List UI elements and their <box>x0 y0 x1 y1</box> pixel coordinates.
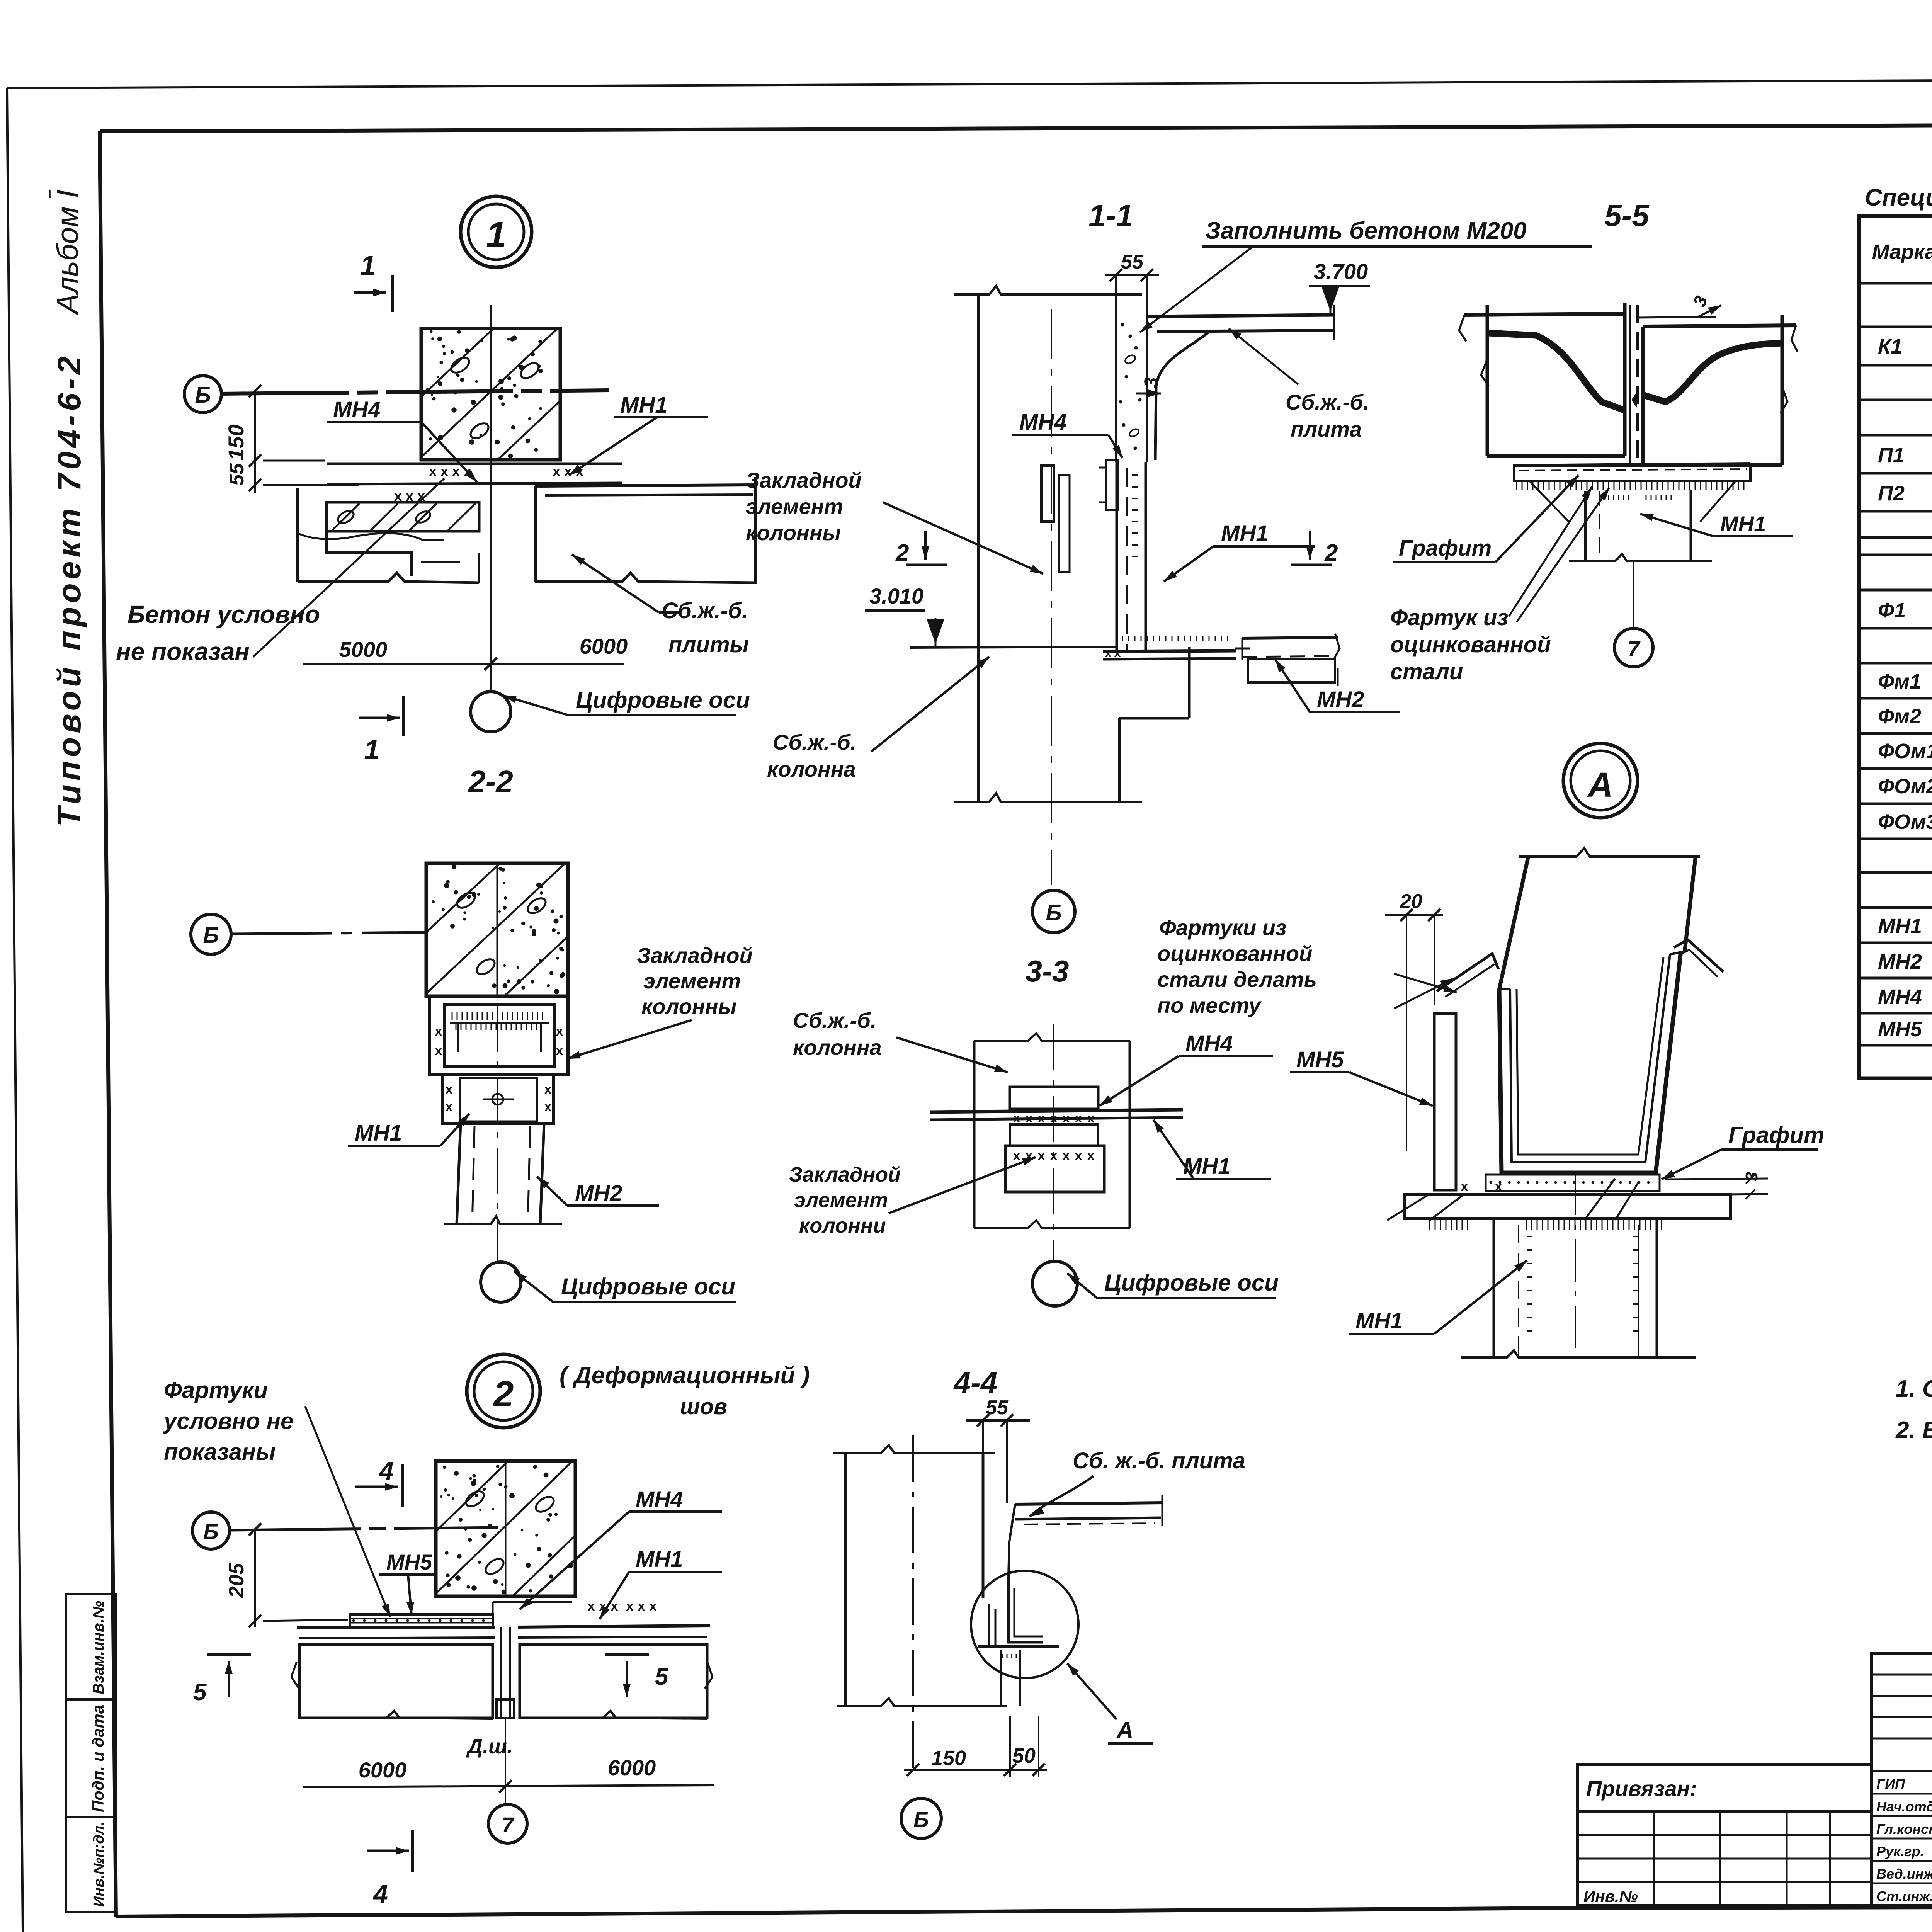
svg-text:стали делать: стали делать <box>1157 967 1317 992</box>
left slab outline node 1 <box>298 488 479 583</box>
leader заполнить бетоном <box>1140 247 1252 332</box>
label МН1 5-5 <box>1640 512 1793 536</box>
label МН1 2-2 <box>348 1114 469 1146</box>
svg-text:x: x <box>599 1599 607 1614</box>
svg-text:1-1: 1-1 <box>1088 198 1133 233</box>
steel plates МН joint node 1 <box>327 463 622 504</box>
axis circle Б 4-4 <box>901 1798 941 1838</box>
label Сб.ж.-б. плита 1-1 <box>1286 390 1369 441</box>
axis drop line node 1 <box>490 460 492 691</box>
section mark 5 (left) <box>193 1655 251 1706</box>
svg-text:5000: 5000 <box>339 637 388 662</box>
svg-text:Типовой проект 704-6-2: Типовой проект 704-6-2 <box>51 353 87 827</box>
МН4 angle piece 1-1 <box>1099 460 1117 510</box>
svg-text:x: x <box>446 1100 452 1114</box>
label Цифровые оси node 1 <box>503 687 750 715</box>
label МН4 section 1-1 <box>1012 410 1122 458</box>
cross leader marks node А <box>1394 974 1457 1009</box>
elevation 3.010 <box>865 584 944 646</box>
label Сб.ж.-б. плиты <box>662 598 749 657</box>
bracket МН1 2-2 <box>443 1075 553 1123</box>
МН1 channel stem 1-1 <box>1117 462 1146 651</box>
svg-text:55: 55 <box>1121 251 1144 273</box>
svg-text:Фартуки: Фартуки <box>164 1377 268 1403</box>
svg-text:x: x <box>1105 647 1112 660</box>
svg-text:x: x <box>564 463 572 479</box>
table header texts <box>1872 232 1932 274</box>
svg-text:МН1: МН1 <box>355 1121 402 1146</box>
svg-text:МН1: МН1 <box>1221 521 1268 546</box>
svg-text:Сб.ж.-б.: Сб.ж.-б. <box>662 598 748 623</box>
elevation 3.700 <box>1309 259 1370 315</box>
axis drop line 2-2 <box>497 863 498 1262</box>
detail circle А 4-4 <box>971 1571 1078 1678</box>
table row П2 <box>1878 478 1932 514</box>
svg-text:Привязан:: Привязан: <box>1586 1776 1697 1801</box>
svg-text:x: x <box>638 1599 645 1614</box>
svg-text:x: x <box>588 1599 595 1614</box>
embedded element 2-2 <box>430 996 568 1075</box>
section mark 4 (top) <box>355 1456 403 1507</box>
svg-text:55: 55 <box>226 463 248 486</box>
label МН1 node 1 <box>569 393 708 475</box>
label А 4-4 <box>1067 1663 1153 1743</box>
svg-text:5: 5 <box>655 1663 669 1690</box>
plate section 4-4 <box>1009 1495 1163 1577</box>
svg-text:x: x <box>1050 1148 1058 1163</box>
section mark 2 (left) <box>895 531 947 566</box>
svg-text:2: 2 <box>493 1374 514 1415</box>
label Закладной элемент колонны 2-2 <box>637 943 753 1019</box>
svg-text:Гл.констр.: Гл.констр. <box>1876 1821 1932 1837</box>
lower embedded element 3-3 <box>1005 1124 1104 1192</box>
label МН4 3-3 <box>1099 1031 1273 1106</box>
label Цифровые оси 3-3 <box>1067 1270 1279 1298</box>
table row ФОм3 <box>1878 810 1932 833</box>
svg-text:( Деформационный ): ( Деформационный ) <box>560 1362 810 1389</box>
svg-text:x: x <box>1114 647 1121 660</box>
axis circle Б 1-1 <box>1032 890 1075 933</box>
dimension 20 node А <box>1385 890 1443 1151</box>
Привязан block <box>1577 1764 1872 1906</box>
deformation gap node 2 <box>497 1627 514 1718</box>
leaders фартук 5-5 <box>1509 487 1609 622</box>
svg-text:МН5: МН5 <box>1878 1018 1922 1041</box>
upper embedded plate МН4 3-3 <box>1010 1087 1098 1126</box>
concrete fill speckles 1-1 <box>1119 323 1142 450</box>
svg-text:6000: 6000 <box>608 1755 656 1780</box>
svg-text:колонны: колонны <box>641 994 736 1019</box>
column body 4-4 <box>833 1445 1007 1706</box>
label Бетон условно не показан <box>116 600 320 665</box>
svg-text:x: x <box>611 1599 618 1614</box>
svg-text:плита: плита <box>1291 417 1362 441</box>
label (Деформационный шов) <box>560 1362 810 1419</box>
apron layered joint node 2 <box>350 1599 657 1627</box>
svg-text:Б: Б <box>203 1519 219 1544</box>
left margin box Подп. и дата <box>66 1699 116 1817</box>
svg-text:x: x <box>626 1599 634 1614</box>
right apron hook node А <box>1674 940 1723 977</box>
svg-text:3: 3 <box>1141 377 1162 388</box>
leader from бетон label to plate <box>253 478 444 657</box>
leader сб.ж.-б. плита 1-1 <box>1229 328 1298 384</box>
dimension 205 node 2 <box>225 1523 348 1627</box>
svg-text:x: x <box>452 463 460 479</box>
svg-text:элемент: элемент <box>643 969 741 993</box>
svg-text:4: 4 <box>372 1879 388 1909</box>
leader закладной элемент 2-2 <box>567 1020 692 1059</box>
svg-text:x: x <box>1495 1178 1502 1194</box>
column axis dashline 1-1 <box>1051 309 1052 885</box>
axis line Б 2-2 <box>231 932 426 934</box>
label Фартук из оцинкованной стали <box>1390 605 1551 684</box>
label Сб.ж.-б. колонна 1-1 <box>767 730 856 781</box>
svg-text:плиты: плиты <box>668 632 749 657</box>
label МН4 node 1 <box>327 397 477 482</box>
svg-text:x: x <box>435 1043 442 1058</box>
svg-text:МН2: МН2 <box>1878 950 1922 973</box>
svg-text:Сб.ж.-б.: Сб.ж.-б. <box>773 730 856 754</box>
svg-text:МН4: МН4 <box>1878 985 1922 1009</box>
svg-text:Б: Б <box>203 923 219 948</box>
level line 3.010 <box>910 647 1118 648</box>
svg-text:МН4: МН4 <box>333 397 380 422</box>
small dim 3 1-1 <box>1136 377 1162 397</box>
svg-text:шов: шов <box>680 1394 727 1419</box>
svg-text:x: x <box>576 463 583 479</box>
anchor comb rows node А <box>1430 1178 1662 1230</box>
svg-text:x: x <box>446 1082 452 1096</box>
axis line Б node 2 <box>230 1527 498 1530</box>
slab edge breaks node 2 <box>291 1662 713 1719</box>
right slab node 1 <box>535 477 757 583</box>
svg-text:4-4: 4-4 <box>953 1366 998 1400</box>
node mark 2 (double circle) <box>467 1354 540 1428</box>
label МН1 node А <box>1349 1260 1527 1334</box>
svg-text:элемент: элемент <box>746 494 843 519</box>
svg-text:по месту: по месту <box>1157 993 1262 1017</box>
dimension 150/55 node 1 <box>224 385 359 493</box>
axis dashline 3-3 <box>1053 1024 1054 1260</box>
svg-text:А: А <box>1116 1717 1133 1743</box>
svg-text:3.700: 3.700 <box>1314 259 1368 284</box>
svg-text:К1: К1 <box>1878 335 1902 358</box>
svg-text:условно не: условно не <box>163 1408 293 1434</box>
svg-text:x: x <box>1038 1148 1045 1163</box>
axis circle Б node 1 <box>184 376 221 413</box>
svg-text:x: x <box>440 463 448 479</box>
left apron hook node А <box>1437 954 1498 997</box>
label Цифровые оси 2-2 <box>514 1271 736 1302</box>
label Графит node А <box>1662 1122 1824 1179</box>
svg-text:x: x <box>1075 1148 1082 1163</box>
svg-text:x: x <box>435 1024 442 1039</box>
column top node А <box>1499 848 1700 989</box>
svg-text:МН4: МН4 <box>1185 1031 1233 1056</box>
svg-text:П2: П2 <box>1878 482 1905 505</box>
section mark 2 (right) <box>1291 531 1338 566</box>
concrete column block 2-2 <box>426 863 568 996</box>
svg-text:Закладной: Закладной <box>637 943 753 968</box>
svg-text:x: x <box>464 463 471 479</box>
section mark 1 (bottom) <box>359 696 404 765</box>
dimension 6000 6000 node 2 <box>303 1755 714 1793</box>
svg-text:Цифровые оси: Цифровые оси <box>561 1274 735 1299</box>
embedded channel 1-1 <box>1041 466 1070 572</box>
left margin box Взам.инв.№ <box>66 1594 116 1699</box>
center grout joint 5-5 <box>1630 305 1638 466</box>
svg-text:МН1: МН1 <box>620 393 667 418</box>
svg-text:МН4: МН4 <box>636 1487 683 1512</box>
dim 3 node А <box>1665 1172 1768 1199</box>
label МН5 node А <box>1290 1047 1433 1106</box>
label МН4 node 2 <box>520 1487 722 1609</box>
table row Фм2 <box>1878 705 1932 728</box>
svg-text:x: x <box>544 1100 551 1114</box>
axis circle 7 5-5 <box>1614 628 1653 667</box>
axis line node А <box>1575 1173 1576 1357</box>
svg-text:205: 205 <box>225 1563 248 1598</box>
node mark 1 (double circle) <box>461 196 532 267</box>
signature table grid <box>1872 1653 1932 1906</box>
svg-text:Ф1: Ф1 <box>1878 599 1906 622</box>
svg-text:ФОм2: ФОм2 <box>1878 775 1932 798</box>
leader Сб.ж.-б. плиты <box>572 554 680 612</box>
column axis 4-4 <box>912 1435 914 1770</box>
svg-text:МН5: МН5 <box>1296 1047 1344 1072</box>
table row П1 <box>1878 440 1932 475</box>
column step section 1-1 <box>954 647 1189 802</box>
base plate node А <box>1404 1195 1730 1219</box>
svg-text:150: 150 <box>224 424 248 460</box>
column stem node А <box>1387 1179 1696 1357</box>
svg-text:МН1: МН1 <box>1720 512 1766 536</box>
svg-text:МН5: МН5 <box>386 1550 432 1574</box>
axis circle 7 node 2 <box>488 1804 527 1843</box>
svg-text:Цифровые оси: Цифровые оси <box>576 687 750 713</box>
detail inside circle А <box>978 1577 1059 1706</box>
svg-text:Марка: Марка <box>1872 240 1932 264</box>
svg-text:А: А <box>1587 766 1613 804</box>
dimension 150/50 4-4 <box>904 1716 1047 1777</box>
svg-text:П1: П1 <box>1878 444 1905 467</box>
section mark 5 (right) <box>605 1655 669 1697</box>
label МН2 section 1-1 <box>1275 659 1400 712</box>
svg-text:Закладной: Закладной <box>789 1163 901 1186</box>
svg-text:Фартуки из: Фартуки из <box>1159 915 1287 940</box>
through plate МН1 3-3 <box>930 1110 1183 1120</box>
svg-text:5-5: 5-5 <box>1604 198 1650 233</box>
label Сб.ж.-б. колонна 3-3 <box>793 1008 882 1060</box>
concrete column block node 1 <box>421 305 560 460</box>
svg-text:150: 150 <box>931 1747 966 1770</box>
label Фартуки условно не показаны <box>163 1377 293 1465</box>
axis circle Б 2-2 <box>191 914 231 954</box>
table row Фм1 <box>1878 670 1932 693</box>
svg-text:2. Все монтажные сварные ш: 2. Все монтажные сварные швы высотой 6мм… <box>1895 1417 1932 1444</box>
svg-text:Б: Б <box>195 383 211 408</box>
leader закладной 3-3 <box>889 1157 1036 1213</box>
svg-text:стали: стали <box>1390 659 1463 684</box>
svg-text:Б: Б <box>1046 900 1061 925</box>
svg-text:колонна: колонна <box>767 757 856 781</box>
label Фартуки из оцинкованной стали делать по месту <box>1157 915 1317 1017</box>
axis circle bottom node 1 <box>471 692 511 732</box>
label Заполнить бетоном М200 <box>1202 218 1592 247</box>
leader фартуки to plate <box>305 1406 390 1617</box>
column below 5-5 <box>1530 482 1735 561</box>
svg-text:Альбом I: Альбом I <box>50 190 84 315</box>
svg-text:Закладной: Закладной <box>746 468 862 492</box>
dimension 55 section 4-4 <box>966 1396 1030 1503</box>
hatched bearing plate node 1 <box>327 502 479 531</box>
column stem МН2 2-2 <box>444 1123 562 1224</box>
svg-text:x: x <box>556 1043 563 1058</box>
svg-text:колонны: колонны <box>746 520 841 545</box>
svg-text:ГИП: ГИП <box>1876 1776 1905 1792</box>
svg-text:Взам.инв.№: Взам.инв.№ <box>90 1601 107 1694</box>
svg-text:x: x <box>544 1082 551 1096</box>
svg-text:ФОм1: ФОм1 <box>1878 740 1932 763</box>
svg-text:Нач.отд.: Нач.отд. <box>1876 1799 1932 1815</box>
label МН1 3-3 <box>1153 1120 1271 1179</box>
axis circle Б node 2 <box>192 1512 230 1549</box>
svg-text:1. Общие указания см. лист: 1. Общие указания см. лист 1. <box>1896 1376 1932 1402</box>
signature rows text <box>1876 1773 1932 1905</box>
right slab node 2 <box>518 1626 710 1718</box>
label МН1 node 2 <box>600 1547 722 1619</box>
svg-text:x: x <box>650 1599 657 1614</box>
svg-text:Сб.ж.-б.: Сб.ж.-б. <box>793 1008 876 1032</box>
graphite speckles <box>1490 1181 1650 1184</box>
svg-text:2: 2 <box>895 540 909 566</box>
svg-text:Графит: Графит <box>1728 1122 1824 1148</box>
section mark 4 (bottom) <box>367 1830 413 1909</box>
МН5 bar node А <box>1434 1014 1456 1190</box>
label Закладной элемент колонны 1-1 <box>746 468 862 545</box>
svg-text:1: 1 <box>486 214 507 255</box>
svg-text:6000: 6000 <box>359 1758 407 1782</box>
svg-text:МН2: МН2 <box>1317 687 1364 712</box>
leader сб.ж.-б. плита 4-4 <box>1030 1476 1094 1517</box>
axis circle bottom 2-2 <box>481 1262 521 1302</box>
svg-text:3-3: 3-3 <box>1026 954 1069 988</box>
svg-text:5: 5 <box>193 1679 207 1706</box>
base plate section 1-1 <box>1103 636 1250 660</box>
leader сб.ж.-б. колонна 1-1 <box>871 657 989 752</box>
svg-text:Вед.инж.: Вед.инж. <box>1876 1866 1932 1882</box>
svg-text:2-2: 2-2 <box>468 764 513 799</box>
section mark 1 (top) <box>354 250 392 312</box>
svg-text:колонни: колонни <box>799 1214 886 1237</box>
label Графит 5-5 <box>1393 475 1578 562</box>
svg-text:Графит: Графит <box>1399 536 1492 561</box>
concrete column block node 2 <box>436 1461 575 1596</box>
svg-text:Бетон условно: Бетон условно <box>128 600 320 628</box>
svg-text:3.010: 3.010 <box>869 584 923 608</box>
svg-text:Заполнить бетоном М200: Заполнить бетоном М200 <box>1205 218 1527 244</box>
column body section 1-1 <box>954 286 1147 802</box>
dimension 5000/6000 node 1 <box>303 634 628 670</box>
svg-text:x: x <box>1063 1148 1070 1163</box>
label Закладной элемент колонны 3-3 <box>789 1163 901 1237</box>
svg-text:оцинкованной: оцинкованной <box>1157 941 1312 966</box>
svg-text:МН1: МН1 <box>1878 915 1922 938</box>
svg-text:4: 4 <box>378 1456 394 1486</box>
right lower plate МН2 <box>1242 634 1340 686</box>
svg-text:Спецификация колонн, плит площ: Спецификация колонн, плит площадки и фун… <box>1865 184 1932 211</box>
leader закладной 1-1 <box>883 502 1043 574</box>
table row ФОм1 <box>1878 740 1932 763</box>
axis drop line node 2 <box>505 1718 506 1804</box>
svg-text:Подп. и дата: Подп. и дата <box>89 1705 107 1812</box>
leader сб.ж.-б. колонна 3-3 <box>896 1037 1008 1072</box>
comb ticks МН1 stem <box>1132 475 1138 556</box>
svg-text:x: x <box>1087 1148 1095 1163</box>
spec table grid <box>1859 216 1932 1078</box>
axis circle bottom 3-3 <box>1032 1261 1077 1306</box>
svg-text:МН1: МН1 <box>636 1547 683 1572</box>
svg-text:МН1: МН1 <box>1355 1308 1403 1333</box>
svg-text:7: 7 <box>1628 636 1641 661</box>
svg-text:Инв.№п:дл.: Инв.№п:дл. <box>91 1821 107 1907</box>
svg-text:x: x <box>556 1024 563 1039</box>
svg-text:Фм1: Фм1 <box>1878 670 1921 693</box>
svg-text:не показан: не показан <box>116 638 250 665</box>
svg-text:ФОм3: ФОм3 <box>1878 810 1932 833</box>
svg-text:Рук.гр.: Рук.гр. <box>1876 1844 1924 1859</box>
svg-text:1: 1 <box>360 250 376 281</box>
svg-text:Цифровые оси: Цифровые оси <box>1104 1270 1279 1296</box>
graphite layer node А <box>1486 1173 1660 1191</box>
label МН1 section 1-1 <box>1164 521 1315 582</box>
label МН5 node 2 <box>379 1550 437 1615</box>
funnel bucket node А <box>1499 951 1685 1173</box>
svg-text:Сб. ж.-б. плита: Сб. ж.-б. плита <box>1073 1448 1245 1473</box>
left margin box Инв.№ подл. <box>66 1817 116 1912</box>
svg-text:x: x <box>1461 1178 1468 1194</box>
svg-text:x: x <box>429 463 437 479</box>
svg-text:МН4: МН4 <box>1019 410 1066 435</box>
axis drop 5-5 <box>1633 561 1634 628</box>
svg-text:x: x <box>553 463 560 479</box>
left slab 5-5 <box>1459 303 1625 456</box>
svg-text:оцинкованной: оцинкованной <box>1390 632 1551 657</box>
svg-text:Ст.инж.: Ст.инж. <box>1876 1888 1932 1904</box>
svg-text:показаны: показаны <box>164 1439 276 1465</box>
svg-text:1: 1 <box>364 735 379 765</box>
svg-text:Сб.ж.-б.: Сб.ж.-б. <box>1286 390 1369 414</box>
axis line Б node 1 <box>221 390 609 394</box>
left slab node 2 <box>297 1627 495 1718</box>
svg-text:колонна: колонна <box>793 1035 882 1060</box>
svg-text:Б: Б <box>913 1807 929 1832</box>
svg-text:Фартук из: Фартук из <box>1390 605 1509 630</box>
node mark А (double circle) <box>1563 743 1638 818</box>
svg-text:Инв.№: Инв.№ <box>1583 1887 1638 1905</box>
svg-text:Фм2: Фм2 <box>1878 705 1921 728</box>
svg-text:элемент: элемент <box>794 1189 888 1212</box>
dimension 55 section 1-1 <box>1105 251 1159 298</box>
svg-text:7: 7 <box>502 1813 515 1837</box>
bearing platform 5-5 <box>1514 464 1750 490</box>
svg-text:2: 2 <box>1324 540 1338 566</box>
table row ФОм2 <box>1878 775 1932 798</box>
dim 3 top 5-5 <box>1638 293 1721 318</box>
svg-text:x: x <box>1013 1148 1020 1163</box>
top slab section 1-1 <box>1147 305 1334 460</box>
